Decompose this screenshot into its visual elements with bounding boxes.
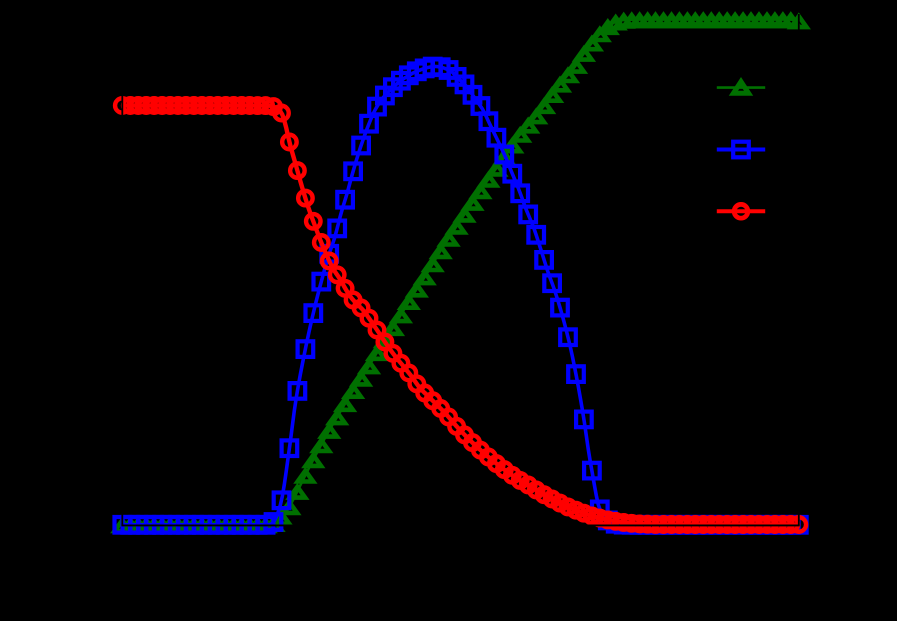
legend entry blue xyxy=(717,148,765,152)
blue square markers xyxy=(115,517,131,533)
green curve line xyxy=(122,20,799,525)
red curve line xyxy=(122,106,799,525)
legend entry green xyxy=(717,86,765,89)
axes spines drawn over data (black) xyxy=(121,14,123,525)
legend entry red xyxy=(717,209,765,213)
blue curve line xyxy=(122,66,799,524)
red circle markers xyxy=(115,98,130,113)
green triangle markers xyxy=(115,520,130,531)
